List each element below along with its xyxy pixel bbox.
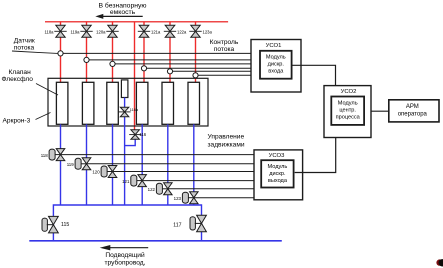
svg-text:потока: потока: [14, 44, 35, 51]
valve 116 stem tick: [129, 134, 141, 136]
valve 123а stem tick: [189, 30, 201, 32]
valve 116: [131, 130, 140, 140]
node: Аркрон-3 cabinet box: [48, 78, 208, 126]
wire: red riser line 1: [60, 22, 62, 84]
valve 116а stem tick: [119, 111, 131, 113]
svg-text:Модуль: Модуль: [338, 100, 358, 106]
valve 117: [197, 215, 207, 232]
node: flow sensor tap 1: [58, 51, 63, 56]
node: УСО2 box: [324, 86, 371, 138]
node: flow sensor tap 3: [110, 61, 115, 66]
valve 118: [56, 149, 65, 161]
wire: pointer from label to flexflo body: [36, 84, 58, 96]
wire: red riser line 3: [112, 22, 114, 84]
svg-text:УСО1: УСО1: [266, 43, 282, 49]
svg-text:119: 119: [67, 162, 75, 167]
node: flow sensor tap 5: [167, 69, 172, 74]
wire: actuator link 115: [47, 224, 54, 226]
wire: flow direction arrow (top, pointing left): [95, 14, 142, 19]
wire: supply pipeline (blue): [29, 240, 281, 242]
valve 122: [164, 183, 173, 195]
svg-text:выхода: выхода: [268, 178, 288, 184]
wire: УСО3 to УСО2: [295, 138, 336, 173]
wire: red header pipe to drain tank: [45, 21, 228, 23]
valve 123: [190, 192, 199, 204]
svg-text:УСО2: УСО2: [341, 89, 357, 95]
node: УСО3 box: [254, 150, 303, 200]
svg-text:УСО3: УСО3: [269, 153, 285, 159]
svg-text:123: 123: [174, 196, 182, 201]
svg-text:122а: 122а: [177, 30, 187, 35]
svg-text:123а: 123а: [203, 30, 213, 35]
node: flow sensor tap 6: [193, 73, 198, 78]
node: narrow bypass body: [121, 80, 128, 98]
svg-text:115: 115: [61, 222, 69, 228]
node: flexflo valve body 1: [56, 82, 68, 124]
svg-text:трубопровод,: трубопровод,: [105, 259, 146, 267]
valve 120: [108, 166, 117, 178]
valve 121а stem tick: [138, 30, 150, 32]
wire: blue elbow under valve 116: [125, 139, 136, 145]
wire: valve control line 123 to УСО3: [194, 197, 254, 199]
node: flow sensor tap 2: [84, 57, 89, 62]
valve 120а stem tick: [106, 30, 118, 32]
svg-text:дискр.: дискр.: [268, 62, 285, 68]
wire: blue collecting manifold: [53, 205, 201, 241]
node: label "В безнапорную емкость": [98, 2, 146, 17]
node: УСО1 box: [251, 40, 301, 93]
wire: actuator link 118: [55, 154, 61, 156]
valve 119: [82, 158, 91, 170]
wire: blue drop line 2: [86, 124, 88, 205]
wire: valve control line 119 to УСО3: [87, 163, 255, 165]
wire: valve control line 122 to УСО3: [168, 188, 254, 190]
wire: pointer from label to cabinet box: [36, 113, 51, 120]
wire: actuator link 123: [188, 197, 194, 199]
node: flexflo valve body 6: [188, 82, 200, 124]
svg-text:121а: 121а: [151, 30, 161, 35]
svg-text:задвижками: задвижками: [208, 141, 245, 148]
svg-text:121: 121: [122, 179, 130, 184]
svg-text:120а: 120а: [96, 30, 106, 35]
wire: blue drop line 3: [112, 124, 114, 205]
wire: blue drop line 6: [193, 124, 195, 205]
wire: УСО2 to АРМ: [371, 110, 389, 112]
valve 120а: [108, 25, 117, 37]
node: label "Подводящий трубопровод": [105, 251, 146, 266]
wire: actuator link 117: [195, 222, 202, 224]
valve 122 actuator: [156, 183, 162, 194]
svg-text:оператора: оператора: [398, 112, 428, 118]
wire: blue drop line 1: [60, 124, 62, 205]
valve 119 actuator: [75, 158, 81, 169]
valve 123 actuator: [182, 192, 188, 203]
wire: УСО1 to УСО2: [292, 65, 336, 85]
valve 118а stem tick: [54, 30, 66, 32]
svg-text:116: 116: [139, 132, 146, 137]
svg-text:118а: 118а: [44, 30, 54, 35]
wire: flow sensor line 5 to УСО1: [170, 70, 251, 72]
svg-text:Модуль: Модуль: [267, 164, 287, 170]
wire: actuator link 120: [107, 171, 113, 173]
valve 118 actuator: [49, 149, 55, 160]
wire: pointer from label to sensor tap 1: [12, 51, 58, 53]
valve 116а: [120, 107, 129, 117]
svg-text:дискр.: дискр.: [269, 171, 286, 177]
wire: red riser line 4: [143, 22, 145, 84]
valve 121: [138, 175, 147, 187]
svg-text:Флексфло: Флексфло: [2, 76, 34, 83]
wire: blue drop line 5: [167, 124, 169, 205]
wire: valve control line 121 to УСО3: [142, 180, 254, 182]
valve 115 actuator: [42, 218, 47, 231]
svg-text:потока: потока: [214, 46, 235, 53]
node: АРМ оператора box: [389, 100, 439, 122]
wire: actuator link 121: [137, 180, 143, 182]
wire: flow sensor line 3 to УСО1: [113, 63, 252, 65]
valve 119а: [82, 25, 91, 37]
valve 118а: [56, 25, 65, 37]
valve 119а stem tick: [80, 30, 92, 32]
wire: flow direction arrow (bottom, pointing left): [100, 245, 149, 250]
node: flow sensor tap 4: [141, 66, 146, 71]
svg-text:центр.: центр.: [339, 107, 356, 113]
svg-text:Модуль: Модуль: [266, 55, 286, 61]
wire: flow sensor line 1 to УСО1: [61, 52, 252, 54]
svg-text:емкость: емкость: [110, 9, 136, 16]
wire: valve control line 120 to УСО3: [113, 171, 255, 173]
wire: red riser line 5: [169, 22, 171, 84]
valve 120 actuator: [101, 166, 107, 177]
node: flexflo valve body 4: [136, 82, 148, 124]
valve 123а: [191, 25, 200, 37]
node: flexflo valve body 3: [107, 82, 119, 124]
node: flexflo valve body 2: [82, 82, 94, 124]
svg-text:Управление: Управление: [208, 133, 245, 140]
svg-text:119а: 119а: [70, 30, 80, 35]
valve 121а: [139, 25, 149, 37]
svg-text:входа: входа: [268, 69, 284, 75]
node: label "Управление задвижками": [208, 133, 245, 148]
valve 121 actuator: [131, 175, 137, 186]
svg-text:116а: 116а: [130, 108, 139, 112]
node: dark spot artifact: [436, 259, 443, 266]
valve 122а: [165, 25, 175, 37]
valve 122а stem tick: [164, 30, 176, 32]
wire: blue drop line 4: [141, 124, 143, 205]
wire: valve control line 118 to УСО3: [61, 154, 255, 156]
svg-text:процесса: процесса: [336, 114, 361, 120]
svg-text:Аркрон-3: Аркрон-3: [3, 117, 31, 124]
wire: red riser line 2: [86, 22, 88, 84]
svg-text:117: 117: [173, 223, 181, 229]
node: label "Контроль потока": [210, 39, 239, 53]
wire: flow sensor line 6 to УСО1: [196, 74, 252, 76]
svg-text:Подводящий: Подводящий: [105, 251, 145, 259]
valve 117 actuator: [190, 217, 195, 230]
wire: blue middle line from bypass: [124, 98, 126, 206]
node: flexflo valve body 5: [162, 82, 174, 124]
wire: flow sensor line 4 to УСО1: [144, 67, 251, 69]
valve 115: [49, 216, 59, 233]
svg-text:122: 122: [148, 187, 156, 192]
svg-text:АРМ: АРМ: [406, 104, 419, 110]
wire: actuator link 122: [162, 188, 168, 190]
node: label "Датчик потока": [14, 38, 35, 52]
wire: red middle line to valve 116: [134, 22, 136, 130]
wire: flow sensor line 2 to УСО1: [87, 59, 252, 61]
svg-text:118: 118: [41, 153, 49, 158]
svg-text:Контроль: Контроль: [210, 39, 239, 46]
svg-text:120: 120: [92, 170, 100, 175]
wire: red riser line 6: [195, 22, 197, 84]
wire: actuator link 119: [81, 163, 87, 165]
node: label "Клапан Флексфло": [2, 69, 34, 83]
